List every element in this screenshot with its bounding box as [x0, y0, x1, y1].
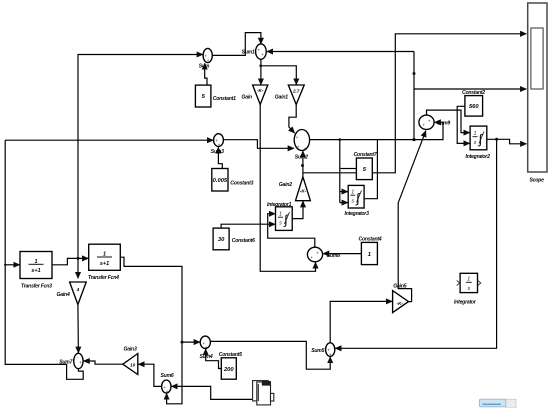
svg-text:Gain3: Gain3	[124, 347, 137, 353]
svg-text:-K-: -K-	[397, 301, 404, 306]
svg-text:Sum1: Sum1	[242, 50, 255, 56]
svg-text:+: +	[428, 119, 431, 124]
svg-text:560: 560	[469, 104, 479, 110]
svg-text:Sum: Sum	[199, 63, 210, 69]
svg-text:-K-: -K-	[300, 189, 307, 194]
svg-text:Gain4: Gain4	[57, 292, 70, 298]
svg-text:+: +	[311, 255, 314, 260]
svg-text:200: 200	[223, 367, 234, 373]
svg-text:Constant7: Constant7	[354, 152, 378, 158]
svg-text:+: +	[166, 389, 169, 394]
svg-text:Sum6: Sum6	[161, 373, 174, 379]
svg-text:Integrator: Integrator	[454, 300, 477, 306]
svg-text:Gain1: Gain1	[275, 94, 288, 100]
svg-text:+: +	[262, 52, 265, 57]
svg-text:Gain5: Gain5	[393, 284, 406, 290]
svg-text:+: +	[423, 122, 426, 127]
svg-text:+: +	[316, 250, 319, 255]
svg-text:Constant6: Constant6	[232, 238, 255, 244]
svg-text:Transfer Fcn4: Transfer Fcn4	[88, 275, 119, 281]
svg-text:Constant3: Constant3	[230, 181, 253, 187]
svg-text:4: 4	[76, 287, 80, 292]
svg-text:+: +	[207, 58, 210, 63]
svg-text:2.7: 2.7	[292, 89, 300, 94]
svg-text:+: +	[304, 146, 307, 151]
svg-text:s+1: s+1	[31, 268, 40, 274]
svg-text:Gain: Gain	[242, 94, 253, 100]
svg-text:30: 30	[218, 237, 225, 243]
svg-text:1: 1	[368, 252, 371, 258]
svg-text:Sum8: Sum8	[327, 253, 340, 259]
svg-text:1: 1	[467, 277, 470, 283]
svg-text:Constant5: Constant5	[219, 352, 242, 358]
svg-text:▬▬▬▬: ▬▬▬▬	[483, 401, 502, 406]
svg-text:Constant2: Constant2	[462, 90, 485, 96]
svg-text:s: s	[467, 286, 470, 292]
svg-text:Scope: Scope	[530, 178, 545, 184]
svg-text:Sum7: Sum7	[59, 360, 73, 366]
svg-text:1: 1	[351, 190, 354, 196]
svg-text:1: 1	[474, 131, 477, 137]
svg-text:s+1: s+1	[100, 261, 109, 267]
svg-text:Gain2: Gain2	[279, 182, 292, 188]
svg-text:+: +	[79, 360, 82, 365]
svg-text:+: +	[205, 345, 208, 350]
svg-text:+: +	[329, 352, 332, 357]
svg-text:Constant4: Constant4	[359, 236, 382, 242]
svg-text:Transfer Fcn3: Transfer Fcn3	[21, 284, 52, 290]
svg-text:Sum2: Sum2	[295, 155, 308, 161]
svg-text:+: +	[297, 145, 300, 150]
svg-text:Integrator3: Integrator3	[345, 211, 370, 217]
svg-text:+: +	[218, 142, 221, 147]
svg-text:Sum9: Sum9	[437, 120, 450, 126]
svg-text:Integrator2: Integrator2	[466, 154, 491, 160]
svg-text:-K-: -K-	[257, 88, 264, 93]
svg-text:Sum4: Sum4	[200, 354, 213, 360]
svg-text:+: +	[296, 135, 299, 140]
svg-text:Sum3: Sum3	[211, 149, 224, 155]
svg-text:+: +	[258, 48, 261, 53]
svg-text:Integrator1: Integrator1	[267, 202, 292, 208]
svg-text:1: 1	[279, 212, 282, 218]
svg-text:Constant1: Constant1	[213, 96, 236, 102]
svg-text:Sum5: Sum5	[311, 348, 324, 354]
svg-text:10: 10	[130, 363, 136, 368]
svg-text:0.005: 0.005	[213, 178, 228, 184]
